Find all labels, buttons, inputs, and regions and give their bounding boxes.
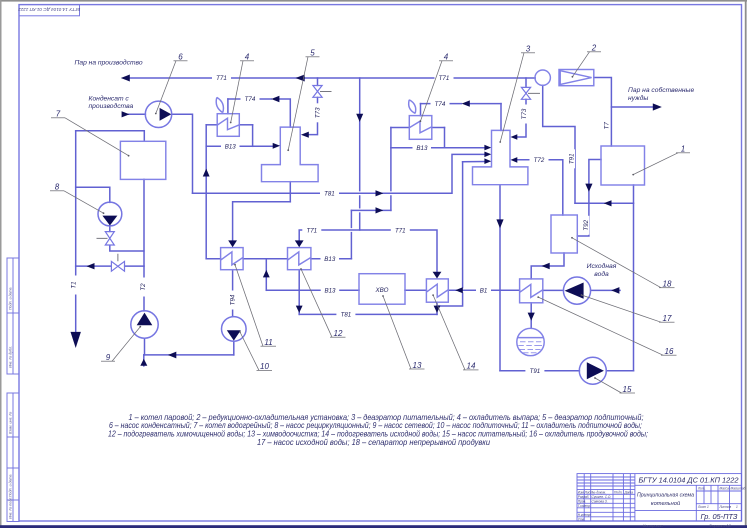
wire В13 into deaerator 5 (206, 145, 273, 147)
svg-text:БГТУ 14.0104 ДС 01.КП 1222: БГТУ 14.0104 ДС 01.КП 1222 (639, 476, 739, 485)
svg-text:13: 13 (413, 361, 422, 370)
heater 16 (520, 279, 543, 303)
arrow Т73 into deaerator 3 (511, 134, 518, 140)
label Т72 (530, 156, 549, 165)
svg-text:Принципиальная схема: Принципиальная схема (637, 493, 694, 499)
svg-text:Масса: Масса (720, 487, 730, 491)
wire Т71 lower distribution (299, 230, 437, 272)
arrow В13 into deaerator 5 (273, 143, 280, 149)
wire Т73 right with valve drop (517, 78, 526, 137)
svg-text:Инв. № дубл.: Инв. № дубл. (9, 346, 13, 368)
wire pumps 9-10 suction (144, 338, 234, 366)
pumps (98, 101, 606, 384)
leader 17 (582, 295, 675, 322)
leader 12 (301, 269, 346, 337)
svg-text:Утв.: Утв. (578, 517, 585, 521)
svg-text:Т71: Т71 (216, 75, 227, 82)
svg-text:Формат А3: Формат А3 (709, 523, 732, 528)
svg-text:Лист: Лист (697, 505, 707, 509)
wire Т71 steam header (129, 77, 536, 79)
wire steam for own needs (611, 106, 653, 108)
label Т74 right (431, 99, 450, 107)
svg-text:Масштаб: Масштаб (731, 487, 746, 491)
svg-text:Т73: Т73 (521, 108, 528, 119)
text raw water (587, 262, 617, 278)
water tank 7 (120, 141, 165, 179)
leader 3 (500, 53, 535, 142)
svg-text:4: 4 (245, 53, 250, 62)
arrow header branch down (356, 114, 363, 122)
pump 8 rotor (102, 216, 117, 226)
leader 15 (595, 378, 635, 393)
svg-text:Конденсат с: Конденсат с (89, 95, 130, 103)
leader end dots (103, 76, 635, 379)
deaerator 5 (262, 127, 319, 182)
vent cooler 4 right (409, 100, 432, 140)
separator 18 (551, 215, 577, 253)
blowdown drum (517, 328, 544, 355)
wire drain with valve (76, 265, 144, 267)
svg-text:Инв. № подл.: Инв. № подл. (9, 497, 13, 519)
leader 5 (288, 57, 319, 150)
label Т74 left (241, 95, 260, 103)
wire В13 into deaerator 3 (391, 147, 485, 149)
pump 17 rotor (565, 283, 584, 299)
title block (577, 474, 742, 521)
wire heater 16 to drum (530, 303, 532, 329)
pump 6 condensate (145, 101, 171, 127)
svg-text:Взам. инв. №: Взам. инв. № (9, 412, 13, 434)
wire heater string 11-12 (243, 258, 287, 260)
svg-text:Исходная: Исходная (587, 262, 617, 270)
leader 11 (235, 265, 276, 347)
svg-text:Копировал: Копировал (643, 523, 664, 528)
svg-text:11: 11 (264, 338, 272, 347)
drum water hatch (518, 342, 542, 353)
scan edge bottom dark bar (0, 525, 747, 528)
svg-text:Т72: Т72 (534, 157, 545, 164)
left margin cells (7, 258, 19, 522)
svg-text:Сушкев. С.О.: Сушкев. С.О. (592, 495, 612, 499)
svg-text:Т81: Т81 (324, 191, 335, 198)
svg-text:8: 8 (55, 183, 60, 192)
wire heater 16 to pump 17 (543, 289, 564, 291)
label В13 lower (321, 286, 340, 295)
svg-text:вода: вода (594, 270, 609, 278)
wire branch from header at x360 (359, 78, 361, 230)
arrow Т74 left (271, 96, 279, 102)
label В13 right (413, 144, 432, 153)
vent cooler 4 left (216, 97, 239, 136)
wire Т74 left (228, 99, 290, 127)
arrow В13 lower up (263, 270, 270, 278)
valve Т73 left (313, 86, 322, 98)
valve stems (97, 91, 541, 261)
leader 13 (383, 296, 425, 369)
leader 14 (433, 295, 478, 370)
svg-text:ХВО: ХВО (375, 287, 389, 294)
svg-text:Лит.: Лит. (697, 487, 706, 491)
arrow feed loop down (496, 219, 503, 228)
svg-text:В1: В1 (480, 288, 488, 295)
label Т71 lower left (302, 226, 321, 235)
valve under pump 8 (105, 232, 114, 245)
arrow pump 9 stub up (140, 359, 147, 366)
leader 4 right (420, 61, 453, 121)
leader 6 (156, 61, 188, 114)
svg-text:Т1: Т1 (71, 281, 78, 288)
svg-text:Пров.: Пров. (578, 499, 587, 503)
wire В13 heater12 to riser (311, 128, 391, 259)
arrow Т74 right (462, 100, 470, 106)
svg-text:В13: В13 (324, 256, 336, 263)
wire boiler bottom header (575, 185, 634, 371)
svg-text:Изм Лист: Изм Лист (578, 490, 593, 494)
svg-text:15: 15 (623, 385, 632, 394)
svg-text:Т91: Т91 (569, 153, 576, 164)
wire pump 8 recirculation (76, 187, 144, 251)
wire Т91 desuperheat water (543, 85, 575, 203)
ХВО 13 water treatment (359, 274, 405, 305)
wire Т94 (232, 270, 234, 317)
svg-text:Т94: Т94 (229, 294, 236, 305)
pump 15 feed (579, 357, 606, 384)
arrow Т92 down (585, 184, 592, 192)
svg-text:7: 7 (56, 110, 61, 119)
label Т92 (582, 216, 590, 235)
pump 10 make-up (222, 317, 247, 342)
deaerator 3 (473, 130, 528, 184)
wire pump 6 discharge (172, 114, 193, 193)
svg-text:6: 6 (178, 53, 183, 62)
svg-text:Т92: Т92 (583, 219, 590, 230)
wire heater 14 outlet to deaerator 3 (437, 162, 485, 307)
valves (105, 86, 530, 272)
svg-text:10: 10 (260, 362, 269, 371)
arrow В1 into heater 14 (455, 287, 463, 293)
text steam for own needs (628, 86, 694, 102)
arrow Т72 into deaerator 3 (511, 157, 518, 163)
boiler 1 (601, 146, 645, 185)
label Т71 lower right (391, 226, 410, 235)
svg-text:№ докум.: № докум. (592, 490, 606, 494)
arrow В13 riser right (376, 207, 384, 213)
wire РОУ outlet Т7 (594, 78, 612, 147)
svg-text:4: 4 (444, 53, 449, 62)
svg-text:Савкова З.: Савкова З. (592, 499, 608, 503)
svg-text:Т73: Т73 (315, 107, 322, 118)
arrow suction line left (168, 352, 176, 359)
svg-text:Т74: Т74 (435, 101, 446, 108)
valve on drain line (111, 261, 124, 271)
leader 9 (101, 327, 140, 362)
label В13 heater string (321, 255, 340, 264)
svg-text:Подп. и дата: Подп. и дата (9, 288, 13, 311)
label В1 (476, 286, 491, 295)
pump 10 rotor (227, 330, 241, 340)
label Т91 (568, 149, 576, 168)
svg-text:Пар на собственные: Пар на собственные (628, 86, 694, 94)
svg-text:Н.контр.: Н.контр. (578, 513, 592, 517)
pump 8 recirculation (98, 202, 122, 226)
svg-text:3: 3 (526, 45, 531, 54)
svg-text:18: 18 (663, 280, 672, 289)
wire Т81 lower (299, 270, 437, 315)
label Т71 header left (212, 74, 231, 82)
arrow heater 12 drain down (296, 306, 303, 313)
leader 16 (538, 297, 676, 355)
svg-text:5: 5 (310, 49, 315, 58)
leader 10 (240, 332, 272, 370)
wire element 4 left drain riser (206, 125, 220, 259)
svg-text:12: 12 (334, 329, 343, 338)
label Т73 right (520, 105, 528, 124)
leader 1 (633, 153, 690, 175)
svg-text:Т74: Т74 (245, 96, 256, 103)
wire Т92 boiler blowdown (577, 160, 601, 237)
wire deaerator 5 bottom to heater 11 top (233, 182, 291, 241)
arrow into deaerator 3 mid (484, 152, 491, 158)
wire Т81 upper manifold (193, 154, 486, 193)
arrow into deaerator 3 top (484, 145, 491, 151)
svg-text:Подп.: Подп. (614, 490, 623, 494)
heater 14 (426, 279, 448, 302)
label В13 left (221, 142, 240, 151)
svg-text:2: 2 (591, 44, 597, 53)
wire В13 lower to ХВО (266, 259, 359, 291)
label Т81 lower (336, 310, 355, 319)
arrow steam to production (121, 75, 130, 82)
svg-text:Дата: Дата (624, 490, 634, 494)
svg-text:производства: производства (89, 102, 134, 110)
arrow raw water inlet (611, 287, 619, 294)
arrow Т73 into deaerator 5 (301, 132, 309, 138)
pump 6 rotor (160, 108, 172, 121)
svg-text:Гр. 05-ПТЗ: Гр. 05-ПТЗ (701, 512, 738, 521)
svg-text:Т71: Т71 (439, 75, 450, 82)
svg-text:Пар на производство: Пар на производство (75, 59, 143, 67)
wire element 4 left stubs (206, 125, 252, 147)
scan edge left (0, 0, 2, 528)
arrow heater 14 drain down (434, 306, 441, 313)
heater 11 (221, 248, 244, 270)
label Т71 header right (435, 74, 454, 82)
svg-text:1: 1 (736, 505, 738, 509)
svg-text:Листов: Листов (719, 505, 732, 509)
svg-text:1: 1 (707, 505, 709, 509)
wire Т72 separator vapour (517, 160, 563, 215)
arrow drain left (87, 263, 95, 269)
top-left stamp box (18, 5, 81, 16)
svg-text:14: 14 (467, 362, 476, 371)
label Т94 (228, 291, 236, 310)
pump 9 network (131, 311, 158, 338)
svg-text:нужды: нужды (628, 94, 648, 102)
svg-text:17 – насос исходной воды; 18: 17 – насос исходной воды; 18 – сепаратор… (257, 438, 490, 447)
arrow separator drain left (542, 263, 550, 269)
svg-text:Т2: Т2 (140, 283, 147, 291)
svg-text:Т7: Т7 (603, 122, 610, 130)
wire Т1 (76, 131, 145, 333)
scan edge right (745, 0, 747, 528)
svg-text:9: 9 (106, 353, 111, 362)
label Т91 bottom (525, 367, 544, 376)
pump 15 rotor (587, 362, 604, 379)
svg-text:БГТУ 14.0104 ДС 01.КП 1222: БГТУ 14.0104 ДС 01.КП 1222 (18, 7, 81, 12)
leader 8 (50, 191, 104, 213)
wire ХВО to heater 14 (405, 289, 426, 291)
arrow header mid left (296, 75, 305, 82)
svg-text:17: 17 (663, 314, 672, 323)
text condensate from production (89, 95, 134, 110)
svg-text:В13: В13 (416, 145, 428, 152)
arrow into heater 14 (433, 272, 442, 279)
pump 17 raw water (563, 277, 590, 304)
leader 7 (51, 118, 129, 156)
wire element 4 right stubs (391, 128, 445, 148)
arrow into drum (528, 313, 535, 321)
wire Т2 (143, 179, 145, 311)
label Т2 (139, 278, 147, 297)
wire В1 raw water (448, 289, 519, 291)
РОУ 2 reduction-cooling unit (559, 70, 594, 86)
scan edge top (0, 0, 747, 2)
svg-text:Подп. и дата: Подп. и дата (9, 475, 13, 498)
wire Т91 feed loop (500, 185, 634, 371)
flow orifice circle (535, 70, 550, 85)
arrow boiler header left (604, 200, 612, 206)
svg-text:Т71: Т71 (395, 227, 406, 234)
arrow Т1 outlet down (71, 332, 81, 348)
wire separator to heater 16 (531, 253, 564, 279)
valve Т73 right (521, 87, 530, 99)
arrow own needs right (653, 103, 662, 110)
arrow up to В13 (203, 169, 210, 177)
wire Т73 left with valve drop (309, 78, 318, 135)
label Т1 (69, 276, 77, 295)
svg-text:Т81: Т81 (341, 312, 352, 319)
leader 18 (572, 238, 675, 288)
arrow into heater 11 (228, 240, 237, 247)
arrow into deaerator 3 low (484, 158, 491, 164)
leader 4 left (231, 61, 254, 123)
wire Т74 right (421, 104, 502, 131)
svg-text:В13: В13 (324, 288, 336, 295)
label Т7 (603, 118, 611, 133)
arrow into heater 12 (295, 240, 304, 247)
heater 12 (288, 248, 311, 270)
arrow condensate inlet (122, 111, 130, 117)
wire pump 6 inlet (128, 113, 145, 115)
arrow Т81 upper right (376, 190, 384, 196)
svg-text:Т.контр.: Т.контр. (578, 504, 591, 508)
label Т73 left (314, 103, 322, 122)
wire raw water inlet (591, 289, 620, 291)
svg-text:В13: В13 (225, 144, 237, 151)
svg-text:Т71: Т71 (306, 227, 317, 234)
leader 2 (572, 52, 601, 77)
svg-text:1: 1 (681, 145, 685, 154)
label Т81 upper (320, 189, 339, 198)
pump 9 rotor (137, 313, 153, 326)
svg-text:Т91: Т91 (530, 368, 541, 375)
svg-text:котельной: котельной (651, 500, 681, 507)
svg-text:Разраб.: Разраб. (578, 495, 590, 499)
svg-text:16: 16 (665, 347, 674, 356)
